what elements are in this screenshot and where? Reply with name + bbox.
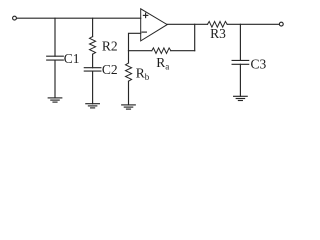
wire: C1 branch down from top rail [54, 18, 56, 56]
svg-text:R: R [136, 66, 145, 81]
capacitor C3 [232, 60, 249, 64]
op-amp U1 [141, 9, 168, 41]
ground (under C1) [48, 98, 62, 102]
wire: Rb to ground [128, 81, 130, 105]
input terminal [13, 16, 17, 20]
wire: feedback vertical to output rail [194, 24, 196, 50]
resistor Ra [152, 48, 171, 54]
svg-text:R3: R3 [210, 26, 226, 41]
wire: Ra to feedback vertical [171, 50, 195, 52]
wire: R2 to C2 [92, 54, 94, 67]
wire: R2 branch down from top rail [92, 18, 94, 36]
svg-text:C1: C1 [64, 51, 80, 66]
svg-text:a: a [165, 61, 169, 71]
wire: input to op-amp noninverting input [17, 17, 141, 19]
svg-text:C3: C3 [251, 57, 267, 72]
wire: C3 to ground [239, 64, 241, 96]
output terminal [279, 22, 283, 26]
wire: feedback node to Ra [129, 50, 152, 52]
wire: op-amp output to R3 [167, 23, 207, 25]
resistor R2 [90, 37, 96, 55]
ground (under C2) [86, 104, 100, 108]
wire: R3 to output terminal [227, 23, 279, 25]
ground (under Rb) [122, 105, 136, 109]
svg-text:C2: C2 [102, 62, 118, 77]
wire: inverting input to feedback node [129, 33, 141, 50]
svg-text:b: b [145, 72, 150, 82]
wire: feedback node to Rb [128, 51, 130, 63]
resistor R3 [208, 21, 228, 27]
wire: C2 to ground [92, 71, 94, 104]
resistor Rb [126, 63, 132, 81]
svg-text:R2: R2 [102, 38, 118, 53]
label Rb [136, 66, 150, 83]
svg-text:R: R [156, 55, 165, 70]
capacitor C1 [47, 56, 64, 60]
wire: C1 to ground [54, 60, 56, 98]
capacitor C2 [84, 68, 101, 71]
wire: C3 branch down from output rail [239, 24, 241, 60]
label Ra [156, 55, 169, 72]
ground (under C3) [234, 96, 248, 100]
